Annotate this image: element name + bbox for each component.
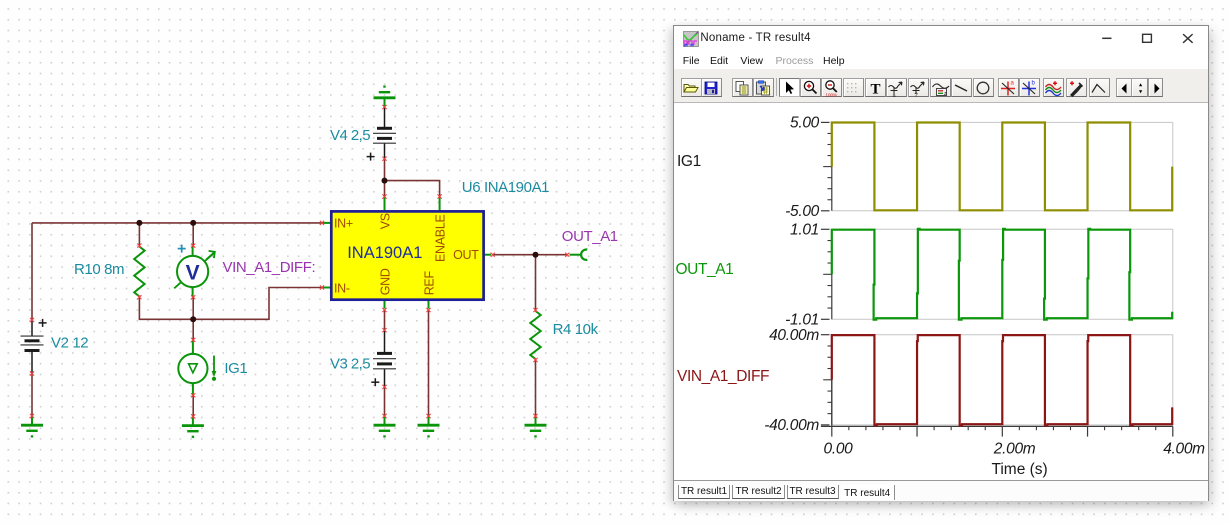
svg-text:R10 8m: R10 8m: [74, 261, 124, 278]
waveform IG1: [832, 123, 1172, 211]
svg-text:V4 2,5: V4 2,5: [330, 127, 370, 144]
svg-text:?: ?: [914, 93, 918, 99]
plus sign voltmeter: [178, 245, 186, 253]
junction node V4: [382, 178, 388, 184]
wire OUT to terminal: [493, 254, 567, 256]
axis title Time (s): [991, 461, 1047, 478]
svg-text:V2 12: V2 12: [51, 335, 88, 352]
chart 2 frame: [821, 229, 1173, 319]
wire left vertical to V2: [31, 223, 33, 320]
svg-text:INA190A1: INA190A1: [347, 244, 422, 262]
plus sign V3: [371, 378, 379, 386]
pin stub REF: [428, 300, 430, 309]
pin label OUT: [453, 248, 479, 262]
chart 1 y-axis labels: [785, 115, 820, 220]
resistor R10: [134, 247, 144, 297]
TR result window: [673, 25, 1209, 501]
pin stub IN+: [322, 222, 331, 224]
curve label VIN_A1_DIFF: [677, 368, 769, 385]
svg-text:0.00: 0.00: [824, 441, 854, 458]
wire bottom rail to IN-: [139, 288, 322, 320]
ground V2: [21, 416, 43, 436]
pin label IN-: [334, 282, 350, 296]
chart 1 frame: [821, 122, 1173, 210]
pin label GND: [379, 268, 393, 295]
pin stub OUT: [484, 254, 491, 256]
svg-text:VIN_A1_DIFF:: VIN_A1_DIFF:: [223, 259, 316, 276]
svg-text:a: a: [892, 93, 896, 99]
wire V2 to ground: [31, 374, 33, 417]
label R10 8m: [74, 261, 124, 278]
connection x marks: [30, 105, 570, 419]
pin label ENABLE: [433, 214, 447, 262]
wire IG1 to ground: [192, 395, 194, 416]
ground IG1: [182, 416, 204, 436]
chart 2 y-axis labels: [785, 222, 819, 329]
time axis labels: [824, 441, 1206, 458]
current source IG1: [178, 340, 216, 395]
svg-text:a: a: [1010, 81, 1014, 87]
svg-text:b: b: [1032, 81, 1036, 87]
wire V4 to VS and ENABLE: [385, 159, 440, 197]
junction node R10 top: [136, 220, 142, 226]
label V2 12: [51, 335, 88, 352]
wire R10 top drop: [138, 223, 140, 246]
pin stub VS: [384, 197, 386, 212]
plus sign V2: [39, 319, 47, 327]
ground V3: [374, 416, 396, 436]
junction node bottom rail: [190, 316, 196, 322]
plus sign V4: [367, 153, 375, 161]
junction node voltmeter top: [190, 220, 196, 226]
circuit schematic: [0, 0, 672, 524]
label V4 2,5: [330, 127, 370, 144]
label V3 2,5: [330, 356, 370, 373]
svg-text:40.00m: 40.00m: [769, 327, 819, 344]
svg-text:IN+: IN+: [334, 217, 353, 231]
svg-text:-5.00: -5.00: [785, 203, 820, 220]
curve label IG1: [677, 153, 701, 170]
wire voltmeter bottom to IG1: [192, 297, 194, 340]
pin label IN+: [334, 217, 353, 231]
wire V3 to ground: [384, 387, 386, 416]
pin label REF: [423, 271, 437, 296]
label VIN_A1_DIFF:: [223, 259, 316, 276]
label IG1: [224, 360, 247, 377]
svg-text:REF: REF: [423, 271, 437, 296]
terminal OUT_A1: [581, 250, 587, 260]
svg-text:VIN_A1_DIFF: VIN_A1_DIFF: [677, 368, 769, 385]
label R4 10k: [553, 321, 599, 338]
curve label OUT_A1: [676, 261, 734, 278]
label U6 INA190A1: [462, 179, 549, 196]
svg-text:OUT_A1: OUT_A1: [676, 261, 734, 278]
svg-text:-40.00m: -40.00m: [764, 417, 819, 434]
junction node OUT: [533, 252, 539, 258]
op-amp U6 INA190A1: [331, 211, 483, 299]
svg-text:IG1: IG1: [677, 153, 701, 170]
battery V4: [373, 107, 396, 159]
battery V2: [21, 320, 44, 374]
pin stub OUT_A1 terminal: [570, 254, 581, 256]
wire OUT junction to R4: [535, 255, 537, 310]
label OUT_A1: [562, 228, 618, 245]
svg-text:T: T: [870, 82, 880, 98]
svg-text:V: V: [186, 262, 200, 285]
ground REF: [418, 416, 440, 436]
pin stub ENABLE: [439, 197, 441, 212]
svg-text:ENABLE: ENABLE: [433, 214, 447, 262]
svg-text:100%: 100%: [826, 93, 838, 98]
svg-text:OUT: OUT: [453, 248, 479, 262]
waveform OUT_A1: [832, 229, 1172, 320]
svg-text:OUT_A1: OUT_A1: [562, 228, 618, 245]
svg-text:IG1: IG1: [224, 360, 247, 377]
svg-text:VS: VS: [378, 213, 392, 229]
voltmeter VIN_A1_DIFF: [174, 246, 215, 298]
svg-text:2.00m: 2.00m: [993, 441, 1036, 458]
time axis: [821, 335, 1173, 437]
ground R4: [525, 416, 547, 436]
wire top rail IN+: [32, 222, 322, 224]
resistor R4: [530, 311, 540, 359]
wire GND pin to V3: [384, 310, 386, 330]
chart 3 frame: [821, 335, 1173, 425]
waveform VIN_A1_DIFF: [832, 335, 1172, 425]
chart 3 y-axis labels: [764, 327, 819, 434]
wire R4 to ground: [535, 360, 537, 416]
pin stub GND: [384, 300, 386, 309]
svg-text:5.00: 5.00: [790, 115, 820, 132]
wire REF to ground: [428, 310, 430, 416]
wire voltmeter top drop: [192, 223, 194, 246]
svg-text:IN-: IN-: [334, 282, 350, 296]
pin stub IN-: [322, 287, 331, 289]
svg-text:4.00m: 4.00m: [1163, 441, 1205, 458]
svg-text:1.01: 1.01: [790, 222, 819, 239]
svg-text:R4 10k: R4 10k: [553, 321, 599, 338]
svg-text:GND: GND: [379, 268, 393, 295]
pin label VS: [378, 213, 392, 229]
svg-text:Time (s): Time (s): [991, 461, 1047, 478]
ground V4 top (inverted): [374, 87, 396, 107]
svg-text:V3 2,5: V3 2,5: [330, 356, 370, 373]
battery V3: [373, 330, 396, 387]
svg-text:U6 INA190A1: U6 INA190A1: [462, 179, 549, 196]
